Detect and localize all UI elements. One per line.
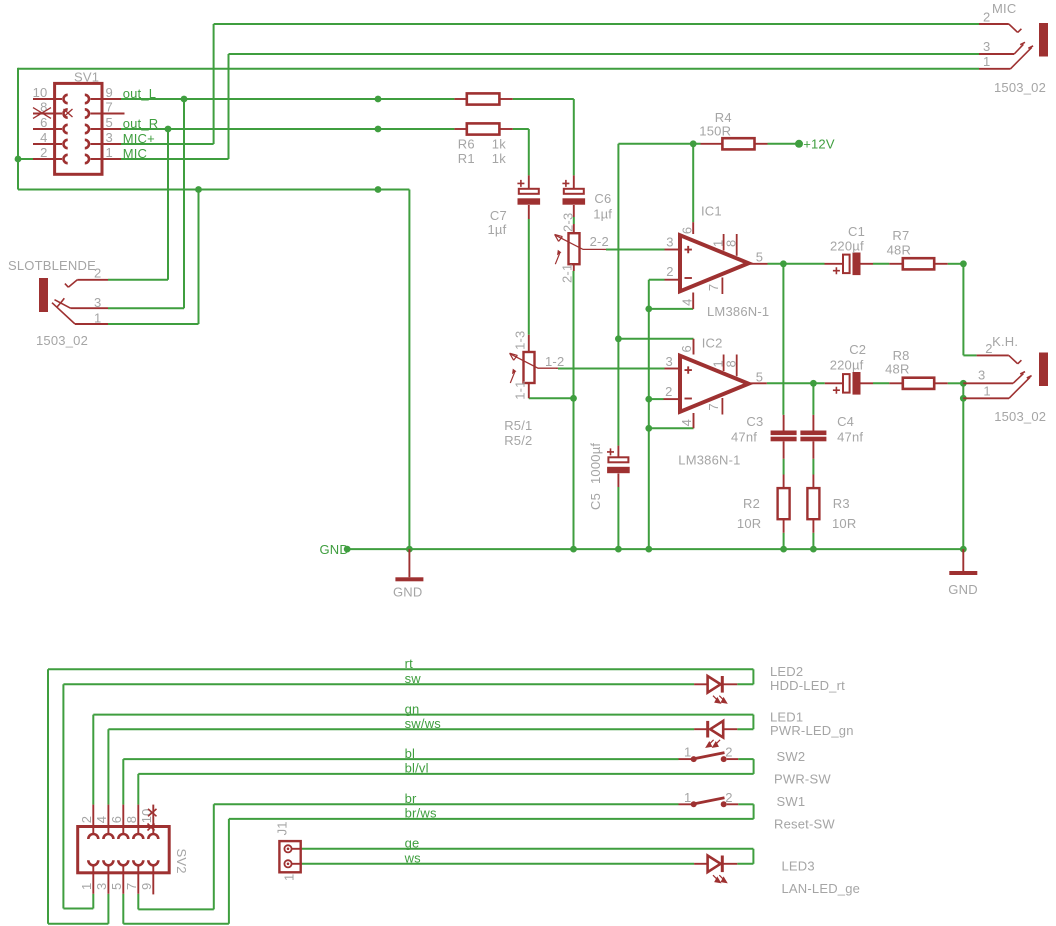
wire C1 to R7 — [873, 263, 889, 265]
svg-text:7: 7 — [124, 883, 139, 890]
SLOTBLENDE pin2 lead — [77, 279, 108, 281]
wire net ws — [302, 863, 694, 865]
junction R7 out corner — [960, 260, 967, 267]
capacitor C6 1uF — [573, 175, 575, 188]
svg-text:R2: R2 — [743, 496, 760, 511]
svg-text:PWR-LED_gn: PWR-LED_gn — [770, 723, 854, 738]
op-amp IC2 LM386N-1 — [680, 356, 749, 412]
wire R6 out to C7 — [513, 128, 529, 130]
svg-text:220µf: 220µf — [830, 239, 864, 254]
IC1 pin2 lead — [665, 279, 680, 281]
svg-text:R6: R6 — [458, 137, 475, 152]
svg-text:R1: R1 — [458, 151, 475, 166]
svg-text:br/ws: br/ws — [405, 806, 437, 821]
IC1 pin6 lead — [692, 222, 694, 234]
C7 plus sign — [517, 180, 524, 187]
svg-text:1: 1 — [983, 54, 990, 69]
SV1 left pin 6 stub — [33, 128, 62, 130]
svg-text:bl/vl: bl/vl — [405, 761, 429, 776]
SV2 top pin 2 stub — [92, 805, 94, 835]
R5 wiper stub 1-2 — [556, 367, 558, 369]
svg-text:8: 8 — [724, 360, 739, 367]
wire R3 to GND bus — [812, 533, 814, 549]
junction on AGND at SV1 pin2 — [15, 156, 22, 163]
C5 plus sign — [607, 448, 614, 455]
J1 pin 2 circle — [284, 860, 291, 867]
wire net bl/vl — [138, 773, 753, 775]
IC2 pin5 output lead — [750, 382, 767, 384]
wire trimmer2 wiper 2-2 to IC1 pin3 — [606, 249, 665, 251]
wire R7 to K.H. corner — [948, 263, 964, 265]
svg-text:5: 5 — [756, 249, 763, 264]
wire LED3 right lead net — [737, 863, 753, 865]
IC1 pin3 lead — [665, 249, 680, 251]
svg-text:+12V: +12V — [803, 137, 835, 152]
wire C7 to R5/1 — [528, 219, 530, 335]
ground symbol right — [962, 549, 964, 571]
svg-text:5: 5 — [756, 370, 763, 385]
wire SW2 right lead net — [738, 758, 753, 760]
junction IC1 output — [780, 260, 787, 267]
svg-text:9: 9 — [106, 85, 113, 100]
junction K.H. pin3 — [960, 380, 967, 387]
wire SW1 loop right — [753, 804, 755, 819]
svg-text:1µf: 1µf — [593, 207, 612, 222]
SV1 right pin 7 stub — [91, 113, 125, 115]
LED LED1 PWR-LED_gn — [710, 721, 723, 738]
svg-text:bl: bl — [405, 746, 416, 761]
IC2 pin3 lead — [665, 368, 680, 370]
junction +12V rail at IC1 pin6 — [690, 140, 697, 147]
jack MIC 1503_02 — [1039, 23, 1048, 57]
wire GND bus — [347, 548, 963, 550]
K.H. jack pin2 lead — [977, 354, 1009, 356]
junctions on GND bus — [344, 546, 351, 553]
resistor R7 48R — [889, 263, 903, 265]
svg-text:3: 3 — [94, 883, 109, 890]
svg-text:C7: C7 — [490, 208, 507, 223]
svg-text:1-1: 1-1 — [513, 380, 528, 399]
svg-text:2: 2 — [666, 264, 673, 279]
C1 plus sign — [833, 267, 840, 274]
K.H. jack pin3 lead — [963, 382, 1013, 384]
svg-text:3: 3 — [983, 39, 990, 54]
svg-text:HDD-LED_rt: HDD-LED_rt — [770, 678, 845, 693]
LED LED3 LAN-LED_ge — [708, 856, 721, 873]
junction on AGND wire y=189 — [195, 186, 202, 193]
svg-text:C3: C3 — [746, 414, 763, 429]
wire net sw — [63, 683, 694, 685]
wire R8 to K.H. pin3 — [948, 382, 964, 384]
wire K.H. ground drop — [962, 383, 964, 549]
svg-text:SLOTBLENDE: SLOTBLENDE — [8, 258, 96, 273]
SV1 left pin 8 stub — [33, 113, 62, 115]
capacitor C7 1uF — [528, 175, 530, 188]
svg-text:sw: sw — [405, 671, 422, 686]
jack SLOTBLENDE 1503_02 — [39, 278, 48, 312]
SV2 top pin 8 stub — [137, 805, 139, 835]
resistor R8 48R — [889, 382, 903, 384]
svg-text:4: 4 — [679, 419, 694, 426]
svg-text:R5/1: R5/1 — [504, 418, 532, 433]
svg-text:3: 3 — [665, 354, 672, 369]
switch SW2 PWR-SW — [679, 758, 692, 760]
resistor R3 10R — [812, 475, 814, 489]
wire SW2 loop right — [753, 759, 755, 774]
svg-text:6: 6 — [680, 227, 695, 234]
svg-text:1503_02: 1503_02 — [994, 80, 1046, 95]
wire LED2 loop right — [752, 669, 754, 684]
svg-text:4: 4 — [94, 816, 109, 823]
svg-text:1: 1 — [282, 874, 297, 881]
svg-text:br: br — [405, 791, 417, 806]
wire out_L branch to SLOTBLENDE pin3 — [183, 99, 185, 308]
svg-text:2: 2 — [983, 10, 990, 25]
wire net AGND : SV1 pin2 / MIC jack pin1 / ground return — [18, 158, 34, 160]
svg-text:2-1: 2-1 — [560, 264, 575, 283]
svg-text:MIC: MIC — [123, 146, 147, 161]
svg-text:out_R: out_R — [123, 116, 159, 131]
switch SW1 Reset-SW — [679, 803, 692, 805]
wire R1 out to C6 — [513, 98, 574, 100]
SV2 top pin 6 stub — [122, 805, 124, 835]
svg-text:48R: 48R — [885, 361, 909, 376]
svg-text:Reset-SW: Reset-SW — [774, 817, 835, 832]
svg-text:7: 7 — [706, 403, 721, 410]
SV2 pin10 no-connect X marks — [148, 809, 157, 816]
MIC jack pin2 lead — [979, 23, 1009, 25]
svg-text:R7: R7 — [892, 228, 909, 243]
wire net gn — [93, 714, 753, 716]
svg-text:1k: 1k — [492, 151, 506, 166]
wire rail to IC2 pin6 — [618, 338, 693, 340]
wire C2 to R8 — [873, 382, 889, 384]
svg-text:C5: C5 — [588, 493, 603, 510]
power symbol +12V — [795, 140, 803, 148]
capacitor C3 47nF — [783, 415, 785, 431]
svg-text:R3: R3 — [833, 496, 850, 511]
SLOTBLENDE pin1 lead — [75, 323, 108, 325]
wire net out_R : SV1 pin5 to R6 — [120, 128, 454, 130]
svg-text:47nf: 47nf — [731, 430, 757, 445]
SV1 left pin 2 stub — [33, 158, 62, 160]
svg-text:J1: J1 — [275, 821, 290, 835]
svg-text:2: 2 — [665, 384, 672, 399]
svg-text:5: 5 — [106, 115, 113, 130]
svg-text:IC2: IC2 — [702, 336, 723, 351]
svg-text:1: 1 — [983, 384, 990, 399]
svg-text:10: 10 — [33, 85, 48, 100]
SV1 left pin 4 stub — [33, 143, 62, 145]
wire C4 top drop — [812, 383, 814, 415]
svg-text:ge: ge — [405, 836, 420, 851]
wire R2 to GND bus — [783, 533, 785, 549]
svg-text:LM386N-1: LM386N-1 — [678, 452, 740, 467]
svg-text:LM386N-1: LM386N-1 — [707, 304, 769, 319]
svg-text:1: 1 — [106, 145, 113, 160]
wire SW1 right lead net — [738, 803, 753, 805]
wire IC1 pin2 feedback to vertical bus — [649, 279, 665, 281]
svg-text:10R: 10R — [737, 516, 761, 531]
svg-text:SV1: SV1 — [74, 70, 99, 85]
wire IC2 pin2 — [649, 398, 664, 400]
jack K.H. 1503_02 — [1039, 353, 1048, 387]
connector SV2 — [78, 827, 170, 873]
junction R5/1 bottom — [570, 395, 577, 402]
junction IC1 pin4 — [645, 306, 652, 313]
trimmer potentiometer R5/1 (1-1/1-2/1-3) — [528, 335, 530, 352]
svg-text:C1: C1 — [848, 224, 865, 239]
wire net sw/ws — [108, 728, 694, 730]
wire net MIC : SV1 pin1 to MIC jack pin3 — [120, 158, 229, 160]
svg-text:1: 1 — [684, 745, 691, 760]
wire LED3 loop right — [752, 849, 754, 864]
junction out_L — [181, 96, 188, 103]
wire SLOTBLENDE pin1 to AGND — [108, 323, 199, 325]
SV2 bottom pin 7 stub — [137, 865, 139, 894]
wire out_R branch to SLOTBLENDE pin2 — [167, 129, 169, 280]
wire IC1 pin4 — [649, 308, 693, 310]
IC2 pin4 lead — [693, 413, 695, 428]
wire IC1 pin6 drop — [692, 144, 694, 222]
svg-text:3: 3 — [666, 234, 673, 249]
wire +12V rail — [618, 143, 700, 145]
wire IC1 output down to C3 — [782, 264, 784, 415]
resistor R6 1k — [454, 128, 466, 130]
capacitor C5 1000uF — [617, 446, 619, 458]
wire vertical IC pins bus to GND — [648, 280, 650, 549]
svg-text:2: 2 — [40, 145, 47, 160]
IC2 pin6 lead — [693, 339, 695, 355]
J1 pin 1 circle — [284, 845, 291, 852]
wire C4 to R3 — [812, 459, 814, 475]
SV1 pin8 no-connect X marks — [33, 108, 73, 119]
connector SV1 — [55, 83, 102, 174]
junction +12V at IC2 pin6 rail — [615, 335, 622, 342]
svg-text:6: 6 — [40, 115, 47, 130]
K.H. jack pin1 lead — [963, 397, 1009, 399]
svg-text:7: 7 — [106, 99, 113, 114]
svg-text:GND: GND — [320, 542, 350, 557]
SLOTBLENDE pin3 lead — [71, 307, 109, 309]
svg-text:1503_02: 1503_02 — [36, 333, 88, 348]
resistor R4 150R — [701, 143, 723, 145]
svg-text:LED3: LED3 — [782, 859, 815, 874]
svg-text:1: 1 — [94, 311, 101, 326]
svg-text:220µf: 220µf — [830, 358, 864, 373]
ground symbol left — [408, 549, 410, 577]
svg-text:10: 10 — [139, 808, 154, 823]
svg-text:4: 4 — [40, 130, 47, 145]
J1 pin leads — [292, 848, 302, 850]
wire net br/ws — [229, 818, 754, 820]
svg-text:C6: C6 — [594, 191, 611, 206]
svg-text:1-3: 1-3 — [513, 331, 528, 350]
svg-text:sw/ws: sw/ws — [405, 716, 442, 731]
wire C5 bottom to GND bus — [617, 487, 619, 549]
svg-text:6: 6 — [679, 345, 694, 352]
svg-text:1000µf: 1000µf — [588, 443, 603, 484]
svg-text:MIC+: MIC+ — [123, 131, 155, 146]
junction K.H. pin1 — [960, 395, 967, 402]
svg-text:K.H.: K.H. — [992, 334, 1018, 349]
wire R5/1 wiper 1-2 to IC2 pin3 — [558, 368, 665, 370]
SV2 bottom pin 9 stub — [152, 865, 154, 895]
svg-text:out_L: out_L — [123, 86, 157, 101]
svg-text:GND: GND — [393, 585, 423, 600]
svg-text:C2: C2 — [849, 342, 866, 357]
svg-text:2-2: 2-2 — [590, 234, 609, 249]
MIC jack pin1 lead — [979, 68, 1011, 70]
svg-text:C4: C4 — [837, 414, 854, 429]
SV1 right pin 5 stub — [91, 128, 122, 130]
svg-text:6: 6 — [109, 816, 124, 823]
trimmer potentiometer 2 (2-1/2-2/2-3) — [573, 224, 575, 233]
wire IC2 pin4 — [649, 427, 694, 429]
svg-text:LAN-LED_ge: LAN-LED_ge — [782, 881, 861, 896]
LED LED2 HDD-LED_rt — [708, 676, 721, 693]
svg-text:48R: 48R — [887, 243, 911, 258]
junction IC2 pin4 — [645, 425, 652, 432]
SV2 top pin 10 stub — [152, 805, 154, 835]
wire C6 to trimmer 2 — [573, 217, 575, 224]
capacitor C1 220uF — [825, 263, 844, 265]
SV2 top pin 4 stub — [107, 805, 109, 835]
IC1 pin5 output lead — [750, 263, 768, 265]
svg-text:rt: rt — [405, 656, 414, 671]
svg-text:5: 5 — [109, 883, 124, 890]
wire net MIC+ : SV1 pin3 to MIC jack pin2 — [120, 143, 214, 145]
svg-text:PWR-SW: PWR-SW — [774, 772, 831, 787]
svg-text:7: 7 — [706, 284, 721, 291]
trimmer2 wiper stub 2-2 — [603, 248, 607, 250]
svg-text:2: 2 — [725, 790, 732, 805]
C2 plus sign — [833, 387, 840, 394]
wire IC1 output node — [768, 263, 825, 265]
wire net out_L : SV1 pin9 to R1 — [120, 98, 454, 100]
wire LED1 right lead net — [737, 728, 753, 730]
wire net rt — [48, 668, 753, 670]
svg-text:LED2: LED2 — [770, 664, 803, 679]
connector J1 — [279, 841, 300, 872]
SV1 right pin 3 stub — [91, 143, 122, 145]
wire IC2 output node — [767, 382, 825, 384]
junction IC2 output at C4 — [810, 380, 817, 387]
svg-text:SV2: SV2 — [174, 849, 189, 874]
svg-text:4: 4 — [680, 298, 695, 305]
SV1 left pin 10 stub — [33, 98, 62, 100]
svg-text:R5/2: R5/2 — [504, 433, 532, 448]
SV1 right pin 9 stub — [91, 98, 122, 100]
capacitor C2 220uF — [825, 382, 843, 384]
wire C3 to R2 — [783, 459, 785, 475]
op-amp IC1 LM386N-1 — [680, 235, 749, 291]
svg-text:1: 1 — [684, 790, 691, 805]
wire net ge — [302, 848, 753, 850]
svg-text:8: 8 — [724, 240, 739, 247]
svg-text:SW2: SW2 — [777, 749, 806, 764]
SV2 bottom pin 5 stub — [122, 865, 124, 894]
svg-text:2: 2 — [725, 745, 732, 760]
svg-text:2-3: 2-3 — [561, 213, 576, 232]
MIC jack pin3 lead — [979, 53, 1014, 55]
svg-text:SW1: SW1 — [777, 794, 806, 809]
svg-text:10R: 10R — [832, 516, 856, 531]
svg-text:1503_02: 1503_02 — [994, 409, 1046, 424]
svg-text:3: 3 — [94, 295, 101, 310]
wire down to K.H. pin2 — [962, 264, 964, 356]
svg-text:GND: GND — [948, 582, 978, 597]
IC2 pin2 lead — [664, 398, 680, 400]
svg-text:3: 3 — [106, 130, 113, 145]
svg-text:2: 2 — [79, 816, 94, 823]
wire +12V down to C5 — [617, 144, 619, 446]
junction out_R — [165, 126, 172, 133]
wire R5/1 bottom to GND drop — [529, 397, 574, 399]
svg-text:gn: gn — [405, 701, 420, 716]
svg-text:1µf: 1µf — [488, 222, 507, 237]
svg-text:1k: 1k — [492, 137, 506, 152]
SV2 bottom pin 1 stub — [92, 865, 94, 894]
svg-text:1: 1 — [79, 883, 94, 890]
C6 plus sign — [562, 180, 569, 187]
svg-text:9: 9 — [139, 883, 154, 890]
wire net bl — [123, 758, 678, 760]
svg-text:3: 3 — [978, 367, 985, 382]
svg-text:IC1: IC1 — [701, 204, 722, 219]
IC1 pin4 lead — [692, 293, 694, 309]
svg-text:2: 2 — [985, 341, 992, 356]
svg-text:47nf: 47nf — [837, 430, 863, 445]
svg-text:8: 8 — [124, 816, 139, 823]
capacitor C4 47nF — [812, 415, 814, 431]
svg-text:150R: 150R — [699, 124, 731, 139]
wire net br — [214, 803, 679, 805]
wire LED1 loop right — [752, 715, 754, 730]
resistor R1 1k — [454, 98, 466, 100]
svg-text:MIC: MIC — [992, 1, 1016, 16]
SV1 right pin 1 stub — [91, 158, 122, 160]
svg-text:1-2: 1-2 — [545, 354, 564, 369]
svg-text:2: 2 — [94, 266, 101, 281]
junction IC2 pin2 — [645, 396, 652, 403]
wire LED2 right lead net — [737, 683, 753, 685]
SV2 bottom pin 3 stub — [107, 865, 109, 894]
resistor R2 10R — [783, 475, 785, 489]
wire trimmer2 bottom to GND bus — [573, 271, 575, 549]
svg-text:ws: ws — [404, 851, 422, 866]
